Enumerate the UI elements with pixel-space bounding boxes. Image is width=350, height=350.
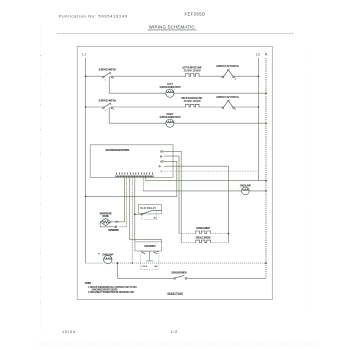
latch dashed enclosure [140, 252, 159, 270]
limiter switch 2 [222, 100, 237, 111]
resistor right surface unit [185, 104, 200, 107]
svg-text:WIRING SCHEMATIC: WIRING SCHEMATIC [149, 24, 196, 29]
svg-text:SURFACE INDICATOR: SURFACE INDICATOR [160, 116, 181, 119]
wire lamp to N [249, 190, 266, 192]
right margin perforation dotted line [309, 55, 311, 312]
svg-text:2. DISCONNECT POWER BEFORE SE: 2. DISCONNECT POWER BEFORE SERVICING UNI… [88, 292, 135, 294]
sensor top terminal [111, 221, 116, 223]
lamp oven lamp left [104, 255, 112, 263]
svg-text:BROIL ELEMENT: BROIL ELEMENT [196, 236, 212, 239]
wire L2 rail [257, 58, 259, 181]
rung 1 wire L1 to switch [86, 75, 103, 77]
wire N rail [265, 58, 267, 278]
svg-text:AND OVEN DOOR NOT LOCKED: AND OVEN DOOR NOT LOCKED [92, 288, 118, 291]
svg-text:LIMITER CAP SWITCH: LIMITER CAP SWITCH [216, 65, 239, 68]
rung 1 wire switch to element [113, 75, 185, 77]
latch tee wire [146, 251, 153, 261]
branch 2 wire lamp to N [174, 122, 266, 124]
header title underline [148, 29, 197, 31]
bundle wire to relay and latch [134, 177, 136, 242]
svg-text:1/2: 1/2 [171, 330, 178, 334]
svg-text:OR: OR [160, 161, 164, 164]
wire lamp line to N [112, 262, 266, 264]
junction dots rung 2 [85, 106, 87, 108]
svg-text:Y-: Y- [160, 170, 162, 173]
relay dashed foot [142, 219, 158, 221]
svg-text:-R-: -R- [158, 165, 162, 168]
svg-text:L1: L1 [82, 53, 86, 57]
svg-text:LIMITER CAP SWITCH: LIMITER CAP SWITCH [216, 96, 239, 99]
svg-text:OVEN LAMP: OVEN LAMP [102, 254, 113, 257]
pin wire R to element common riser [164, 166, 229, 242]
rung 2 wire limiter to L2 [234, 106, 258, 108]
svg-text:OVEN LIGHT SWITCH: OVEN LIGHT SWITCH [171, 272, 187, 275]
latch switch contacts left [142, 251, 145, 254]
svg-text:NOTES:: NOTES: [85, 281, 92, 285]
svg-text:L2: L2 [256, 53, 260, 57]
oven light switch [174, 275, 187, 279]
pin wire W to bake riser [164, 156, 179, 233]
svg-text:SW: SW [154, 266, 157, 268]
svg-text:Publication No: 5995419149: Publication No: 5995419149 [59, 15, 127, 19]
relay dashed under-box verticals [142, 211, 157, 219]
pin wire Y dashed to L2 foot [164, 171, 258, 181]
label dot and OVEN LAMP left [98, 253, 99, 254]
junction dots rung 1 [85, 75, 87, 77]
broil element dashed wire [181, 242, 196, 244]
rung 1 wire element to limiter [200, 75, 222, 77]
svg-text:2100W 1300W: 2100W 1300W [184, 69, 202, 72]
switch surface unit switch 1 [103, 72, 116, 81]
branch 1 wire lamp to N [174, 92, 266, 94]
rung 1 wire limiter to L2 [234, 75, 258, 77]
sensor bottom wire [100, 222, 115, 227]
svg-text:10/04: 10/04 [62, 330, 75, 334]
rung 2 wire switch to element [113, 106, 185, 108]
oven sensor diamond with resistor [100, 218, 111, 225]
svg-text:SURFACE UNIT SW: SURFACE UNIT SW [99, 69, 117, 72]
latch switch contacts right [154, 251, 157, 254]
bundle wire to sensor top [118, 177, 125, 222]
lamp oven lamp right [241, 187, 249, 195]
header separator dotted rule [57, 33, 294, 35]
svg-text:LOCK MOTOR: LOCK MOTOR [144, 245, 156, 248]
left margin perforation dotted line [40, 28, 42, 332]
switch surface unit switch 2 [103, 103, 116, 112]
branch 2 drop wire [109, 107, 166, 123]
schematic frame border [77, 46, 272, 299]
pin wire BK to broil riser [164, 151, 181, 242]
svg-text:BK: BK [160, 151, 164, 154]
rung 2 wire element to limiter [200, 106, 222, 108]
relay box DLB [138, 205, 161, 214]
svg-text:316417100: 316417100 [167, 292, 183, 296]
svg-text:LOCK: LOCK [142, 266, 148, 268]
svg-text:N: N [265, 53, 268, 57]
svg-text:OVEN SENSOR: OVEN SENSOR [108, 229, 119, 232]
bottom perforation dotted line [35, 343, 320, 345]
branch 1 drop wire [109, 76, 166, 93]
pin wire OR to L1 return [86, 161, 177, 196]
bundle wire to sensor bottom [119, 177, 127, 227]
bundle wire to oven lamp line [131, 177, 133, 263]
electronic oven control box [90, 145, 173, 178]
wire neutral feed y180.6 [146, 177, 266, 180]
L1 corner to oven lamp line [86, 262, 104, 264]
resistor bake element [196, 231, 211, 234]
bake element dashed wire [179, 233, 196, 235]
door lock motor box [135, 242, 162, 251]
drop to light switch rung [116, 263, 118, 278]
wire L1 rail [85, 58, 87, 263]
lamp left surface indicator [166, 89, 174, 97]
connector pin comb at box bottom [116, 172, 154, 177]
svg-text:OVEN LAMP: OVEN LAMP [240, 185, 251, 188]
svg-text:W-: W- [160, 155, 163, 158]
relay switch blade [141, 210, 161, 215]
bottom rung wire left [117, 277, 173, 279]
limiter switch 1 [222, 70, 237, 81]
svg-text:PROBE: PROBE [102, 215, 109, 218]
svg-text:ELECTRONIC OVEN CONTROL: ELECTRONIC OVEN CONTROL [106, 148, 131, 152]
bottom rung wire right to N [187, 277, 266, 279]
svg-text:SURFACE INDICATOR: SURFACE INDICATOR [160, 86, 181, 89]
svg-text:FEF365D: FEF365D [185, 11, 206, 16]
wire oven lamp feed y190.9 [142, 177, 144, 191]
rung 2 wire L1 to switch [86, 106, 103, 108]
bundle wire latch wrap [130, 177, 162, 242]
svg-text:2100W 1300W: 2100W 1300W [184, 100, 202, 103]
svg-text:DLB RELAY: DLB RELAY [141, 207, 157, 210]
relay contact wire junction [134, 213, 136, 215]
resistor left surface unit [185, 74, 200, 77]
lamp right surface indicator [166, 119, 174, 127]
svg-text:SURFACE UNIT SW: SURFACE UNIT SW [99, 99, 117, 102]
svg-text:BAKE ELEMENT: BAKE ELEMENT [196, 227, 211, 230]
resistor broil element [196, 240, 211, 243]
